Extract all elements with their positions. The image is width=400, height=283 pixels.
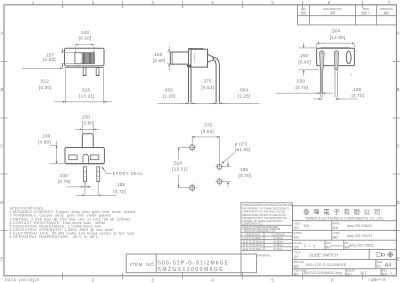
svg-text:mm(inch): mm(inch) — [330, 244, 342, 248]
svg-text:.189: .189 — [41, 134, 51, 139]
svg-text:MANNER WITHOUT THE PRIOR WRITT: MANNER WITHOUT THE PRIOR WRITTEN — [242, 217, 287, 220]
svg-text:.012: .012 — [39, 79, 49, 84]
svg-text:C: C — [0, 144, 3, 149]
svg-text:更改.人: 更改.人 — [361, 11, 370, 15]
svg-text:[1.26]: [1.26] — [163, 93, 176, 98]
svg-text:FINISH: FINISH — [294, 232, 302, 235]
svg-text:[3.80]: [3.80] — [82, 121, 95, 126]
svg-text:.150: .150 — [80, 115, 90, 120]
svg-text:.375: .375 — [203, 123, 213, 128]
svg-text:[ø1.85]: [ø1.85] — [235, 147, 251, 152]
svg-text:APPD: APPD — [333, 223, 340, 226]
svg-text:1 全聯(04-03): 1 全聯(04-03) — [368, 277, 386, 282]
svg-text:說明: 說明 — [330, 11, 336, 15]
svg-text:THE PROPERTY OF TAIWAY ELECTRO: THE PROPERTY OF TAIWAY ELECTRONICS — [242, 207, 289, 210]
svg-text:3: 3 — [151, 278, 154, 283]
svg-text:.030: .030 — [296, 79, 306, 84]
svg-text:5: 5 — [271, 278, 274, 283]
svg-text:DESCRIPTION: DESCRIPTION — [323, 7, 341, 11]
svg-text:[9.53]: [9.53] — [201, 85, 214, 90]
svg-text:A4: A4 — [385, 263, 392, 269]
svg-text:[3.80]: [3.80] — [153, 58, 166, 63]
svg-text:[0.75]: [0.75] — [296, 85, 309, 90]
svg-text:比例: 比例 — [294, 245, 300, 249]
svg-text:1 / 1: 1 / 1 — [360, 271, 367, 275]
svg-text:5M2GS12000M6GE: 5M2GS12000M6GE — [158, 267, 224, 273]
svg-text:USED: USED — [294, 223, 301, 226]
svg-text:.520: .520 — [81, 88, 91, 93]
svg-text:.150: .150 — [153, 52, 163, 57]
svg-text:TAIWAY ELECTRONICS COMPONENTS: TAIWAY ELECTRONICS COMPONENTS CO.,LTD. — [305, 216, 384, 220]
svg-text:ITEM NO.: ITEM NO. — [130, 262, 156, 267]
svg-text:Amy 2017/05/11: Amy 2017/05/11 — [347, 224, 372, 228]
svg-text:核准: 核准 — [333, 226, 339, 230]
svg-text:使用: 使用 — [294, 226, 300, 230]
svg-text:2 / 1: 2 / 1 — [304, 243, 316, 248]
svg-text:.185: .185 — [238, 167, 248, 172]
svg-text:[6.10]: [6.10] — [79, 35, 92, 40]
svg-text:[4.70]: [4.70] — [113, 189, 126, 194]
svg-text:TITLE: TITLE — [294, 251, 301, 254]
svg-text:±0.20mm: ±0.20mm — [273, 238, 283, 240]
svg-text:Amy 2017/05/11: Amy 2017/05/11 — [349, 244, 374, 248]
svg-text:SHEET: SHEET — [347, 270, 356, 273]
svg-text:±0.30mm: ±0.30mm — [273, 245, 283, 247]
svg-text:[13.21]: [13.21] — [172, 167, 187, 172]
svg-text:檔名: 檔名 — [294, 272, 300, 276]
svg-text:DWG NO: DWG NO — [294, 261, 305, 264]
svg-text:.240: .240 — [80, 30, 90, 35]
svg-text:ANGULAR TOLERANCE: ±1.0°: ANGULAR TOLERANCE: ±1.0° — [244, 230, 276, 233]
svg-text:審核: 審核 — [333, 235, 339, 239]
svg-text:泰暐電子有限公司: 泰暐電子有限公司 — [303, 207, 384, 216]
svg-text:DATA:106.05.15: DATA:106.05.15 — [5, 277, 40, 282]
svg-text:D: D — [397, 200, 400, 205]
svg-text:表面: 表面 — [294, 235, 300, 239]
svg-text:8.OPERATING TEMPERATURE: -30°C: 8.OPERATING TEMPERATURE: -30°C to 85°C — [10, 235, 99, 239]
svg-text:APPROVE: APPROVE — [380, 7, 393, 11]
svg-text:.375: .375 — [202, 79, 212, 84]
svg-text:0.01 TO 10.00mm: 0.01 TO 10.00mm — [243, 238, 262, 240]
svg-text:MATERIAL: MATERIAL — [257, 253, 271, 257]
svg-text:TOLERANCE: TOLERANCE — [271, 233, 285, 236]
svg-text:A: A — [1, 31, 4, 36]
svg-text:版本: 版本 — [382, 272, 388, 276]
svg-text:COMPONENTS CO.: COMPONENTS CO. — [242, 224, 263, 226]
svg-text:DR: DR — [345, 242, 349, 245]
svg-text:[12.80]: [12.80] — [330, 35, 345, 40]
svg-text:DWN: DWN — [363, 7, 369, 11]
svg-text:[0.75]: [0.75] — [58, 179, 71, 184]
svg-text:10.01 TO 20.00mm: 10.01 TO 20.00mm — [243, 242, 263, 244]
svg-text:COMPONENTS CO. AND SHALL NOT B: COMPONENTS CO. AND SHALL NOT BE — [242, 211, 285, 214]
svg-text:更改: 更改 — [301, 11, 307, 15]
svg-text:500-S2P-G-S1/2M6GE: 500-S2P-G-S1/2M6GE — [306, 263, 347, 267]
svg-text:500-S2P-G-S1/2M6GE: 500-S2P-G-S1/2M6GE — [158, 260, 229, 266]
svg-text:4: 4 — [211, 278, 214, 283]
svg-text:REV: REV — [301, 7, 307, 11]
svg-text:2: 2 — [92, 278, 95, 283]
svg-text:[0.30]: [0.30] — [39, 85, 52, 90]
svg-text:1: 1 — [390, 271, 392, 275]
svg-text:E: E — [397, 257, 400, 262]
svg-text:[1.26]: [1.26] — [238, 93, 251, 98]
svg-text:品名: 品名 — [294, 255, 300, 259]
svg-text:.520: .520 — [173, 160, 183, 165]
svg-text:.504: .504 — [331, 28, 341, 33]
svg-text:C: C — [397, 144, 400, 149]
svg-text:5M2GS12000M6GE.dwg: 5M2GS12000M6GE.dwg — [304, 271, 342, 275]
svg-text:[13.21]: [13.21] — [79, 93, 94, 98]
svg-text:.185: .185 — [352, 87, 362, 92]
svg-text:尺寸: 尺寸 — [377, 264, 383, 268]
svg-text:審核: 審核 — [384, 11, 390, 15]
svg-text:E: E — [1, 257, 4, 262]
svg-text:EPOXY SEAL: EPOXY SEAL — [113, 171, 144, 176]
svg-text:2: 2 — [334, 73, 336, 77]
svg-text:[4.70]: [4.70] — [239, 173, 252, 178]
svg-text:圖號: 圖號 — [294, 264, 300, 268]
svg-text:[4.80]: [4.80] — [38, 140, 51, 145]
svg-text:REPRODUCED COPIED OR USED IN A: REPRODUCED COPIED OR USED IN ANY — [242, 214, 287, 217]
svg-text:[6.60]: [6.60] — [298, 59, 311, 64]
svg-text:A: A — [397, 31, 400, 36]
svg-text:.185: .185 — [115, 182, 125, 187]
svg-text:±0.30mm: ±0.30mm — [273, 242, 283, 244]
svg-text:[9.53]: [9.53] — [201, 129, 214, 134]
svg-text:B: B — [1, 87, 4, 92]
svg-text:REV: REV — [382, 270, 387, 273]
svg-text:DIMENSIONS: DIMENSIONS — [245, 234, 260, 236]
svg-text:[4.70]: [4.70] — [351, 93, 364, 98]
svg-text:.030: .030 — [58, 173, 68, 178]
svg-text:500: 500 — [304, 224, 310, 228]
svg-text:ø.073: ø.073 — [235, 141, 248, 146]
svg-text:SLIDE SWITCH: SLIDE SWITCH — [309, 253, 338, 258]
svg-text:D: D — [0, 200, 3, 205]
svg-text:SIZE: SIZE — [377, 261, 383, 264]
svg-text:30.01 TO 50.00mm: 30.01 TO 50.00mm — [243, 249, 263, 251]
svg-text:張次: 張次 — [347, 272, 353, 276]
svg-text:B: B — [397, 87, 400, 92]
svg-text:CHKD: CHKD — [333, 232, 340, 235]
svg-text:20.01 TO 30.00mm: 20.01 TO 30.00mm — [243, 245, 263, 247]
svg-text:[4.00]: [4.00] — [43, 57, 56, 62]
svg-text:Amy 2017/05/11: Amy 2017/05/11 — [347, 234, 372, 238]
svg-text:SCALE: SCALE — [294, 242, 303, 245]
svg-text:.260: .260 — [299, 53, 309, 58]
svg-text:±0.40mm: ±0.40mm — [273, 249, 283, 251]
svg-text:.050: .050 — [239, 87, 249, 92]
svg-text:3: 3 — [351, 73, 353, 77]
svg-text:.050: .050 — [163, 87, 173, 92]
svg-text:6: 6 — [331, 278, 334, 283]
svg-text:THESE DRAWINGS AND SPECIFICATI: THESE DRAWINGS AND SPECIFICATIONS ARE — [242, 204, 293, 207]
